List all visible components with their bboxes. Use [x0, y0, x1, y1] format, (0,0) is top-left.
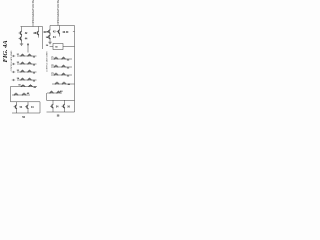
transistor M6a: [14, 93, 19, 96]
transistor Q1: [19, 30, 22, 36]
wire: gate line mark row 2: [12, 63, 15, 65]
svg-text:73: 73: [51, 73, 54, 75]
wire: left rail (left fig): [10, 87, 12, 102]
wire: word line row 2 (right fig): [51, 66, 72, 68]
transistor M2a: [20, 62, 25, 65]
svg-text:52: 52: [67, 67, 70, 69]
wire: Q11 to Q12: [49, 33, 51, 35]
transistor Q12: [47, 34, 50, 40]
wire: word line row 2 (left fig): [17, 63, 37, 65]
wire: word line row 3 (left fig): [17, 71, 37, 73]
svg-text:52: 52: [33, 64, 36, 66]
svg-text:44: 44: [25, 38, 28, 41]
wire: rail tick: [73, 31, 75, 33]
transistor Q18: [62, 103, 65, 109]
ground G2: [48, 42, 51, 44]
wire: source row (left fig): [12, 94, 30, 96]
wire: top bus (right fig): [50, 25, 75, 27]
wire: gate line mark row 1: [12, 55, 15, 57]
wire: bus 1 (left fig): [11, 101, 41, 103]
wire: drop to Q7: [16, 102, 18, 104]
svg-text:58: 58: [57, 114, 60, 117]
transistor Q13: [57, 29, 60, 35]
transistor N2a: [54, 65, 59, 68]
transistor M1a: [20, 54, 25, 57]
svg-text:36: 36: [46, 45, 49, 47]
wire: gate line mark row 3: [12, 71, 15, 73]
transistor N2b: [61, 65, 66, 68]
wire: drop to Q8: [27, 102, 29, 104]
transistor N1a: [54, 57, 59, 60]
svg-text:42: 42: [53, 31, 56, 34]
wire: drop to Q17: [52, 100, 54, 103]
svg-text:46: 46: [68, 83, 71, 86]
wire: word line row 1 (left fig): [17, 55, 37, 57]
wire: right rail (left fig): [42, 27, 44, 50]
wire: Q1 to Q2: [21, 35, 23, 37]
transistor Q8: [25, 104, 28, 110]
svg-text:50: 50: [55, 47, 58, 49]
transistor M5b: [28, 84, 33, 87]
wire: drop to Q13: [59, 26, 61, 29]
transistor N5b: [56, 91, 61, 94]
svg-text:52: 52: [33, 72, 36, 74]
svg-text:42: 42: [25, 32, 28, 35]
svg-text:54: 54: [17, 77, 20, 80]
wire: select row (left fig): [17, 86, 37, 88]
wire: drop to Q11: [49, 26, 51, 29]
transistor Q17: [50, 103, 53, 109]
wire: select row (right fig): [52, 83, 71, 85]
transistor N1b: [61, 57, 66, 60]
transistor Q7: [14, 104, 17, 110]
transistor N4b: [62, 82, 67, 85]
wire: left rail lead: [11, 86, 18, 88]
svg-text:48: 48: [60, 90, 63, 93]
node arrow A1: [27, 44, 29, 46]
svg-text:38: 38: [33, 32, 36, 35]
transistor M4b: [27, 78, 32, 81]
wire: drop to Q3: [38, 27, 40, 31]
wire: Q17 to bottom bus: [52, 109, 54, 112]
svg-text:71: 71: [51, 57, 54, 59]
transistor M6b: [22, 93, 27, 96]
box: regulator U1: [53, 44, 63, 50]
svg-text:72: 72: [51, 65, 54, 67]
transistor N4a: [55, 82, 60, 85]
wire: word line row 1 (right fig): [51, 58, 72, 60]
transistor Q2: [19, 36, 22, 42]
wire: left corner (right fig): [46, 93, 48, 100]
transistor N3b: [61, 73, 66, 76]
svg-text:52: 52: [33, 80, 36, 82]
wire: bottom bus (left fig): [12, 112, 40, 114]
svg-text:52: 52: [33, 56, 36, 58]
wire: top bus (left fig): [21, 26, 43, 28]
wire: feed to gate chain: [27, 44, 29, 53]
svg-text:40: 40: [66, 31, 69, 34]
svg-text:CONTROL GATE LINES: CONTROL GATE LINES: [46, 51, 49, 72]
svg-text:52: 52: [67, 59, 70, 61]
wire: source row (right fig): [47, 92, 62, 94]
svg-text:55: 55: [18, 85, 21, 87]
transistor Q11: [47, 29, 50, 35]
transistor N3a: [54, 73, 59, 76]
wire: stem from top label (right): [57, 23, 59, 26]
wire: select row to rail: [71, 83, 75, 85]
wire: gate line mark row 4: [12, 79, 15, 81]
transistor M3b: [27, 70, 32, 73]
wire: Q18 to bottom bus: [64, 109, 66, 112]
transistor M3a: [20, 70, 25, 73]
transistor M2b: [27, 62, 32, 65]
wire: Q13 stub: [59, 34, 61, 36]
wire: right rail (right fig): [74, 26, 76, 113]
wire: box right lead: [63, 46, 75, 48]
transistor M1b: [27, 54, 32, 57]
ground G1: [20, 44, 23, 46]
svg-text:54: 54: [56, 106, 59, 109]
svg-text:52: 52: [67, 75, 70, 77]
wire: stem from top label: [32, 23, 34, 27]
wire: bus 1 (right fig): [47, 99, 75, 101]
svg-text:PROGRAM VOLTAGE: PROGRAM VOLTAGE: [56, 0, 60, 23]
svg-text:44: 44: [31, 106, 34, 109]
wire: box left lead: [50, 46, 53, 48]
svg-text:FIG. 4A: FIG. 4A: [2, 40, 9, 62]
transistor M4a: [20, 78, 25, 81]
wire: drop to Q1: [21, 27, 23, 31]
transistor M5a: [21, 84, 26, 87]
wire: Q2 to ground: [21, 41, 23, 44]
wire: right drop of bus (left fig): [39, 102, 41, 113]
svg-text:PROGRAM VOLTAGE: PROGRAM VOLTAGE: [31, 0, 35, 23]
svg-text:44: 44: [53, 36, 56, 39]
wire: drop to Q18: [64, 100, 66, 103]
svg-text:56: 56: [22, 116, 25, 119]
wire: Q8 to bottom bus: [27, 110, 29, 113]
transistor N5a: [49, 91, 54, 94]
wire: word line row 4 (left fig): [17, 79, 37, 81]
wire: Q3 stub: [38, 36, 40, 38]
wire: bottom bus (right fig): [47, 111, 75, 113]
svg-text:CONTROL GATE LINES: CONTROL GATE LINES: [10, 50, 13, 71]
wire: word line row 3 (right fig): [51, 74, 72, 76]
svg-text:54: 54: [20, 106, 23, 109]
transistor Q3: [36, 30, 39, 36]
wire: Q7 to bottom bus: [16, 110, 18, 113]
wire: Q12 to ground: [49, 40, 51, 42]
svg-text:56: 56: [67, 107, 70, 109]
